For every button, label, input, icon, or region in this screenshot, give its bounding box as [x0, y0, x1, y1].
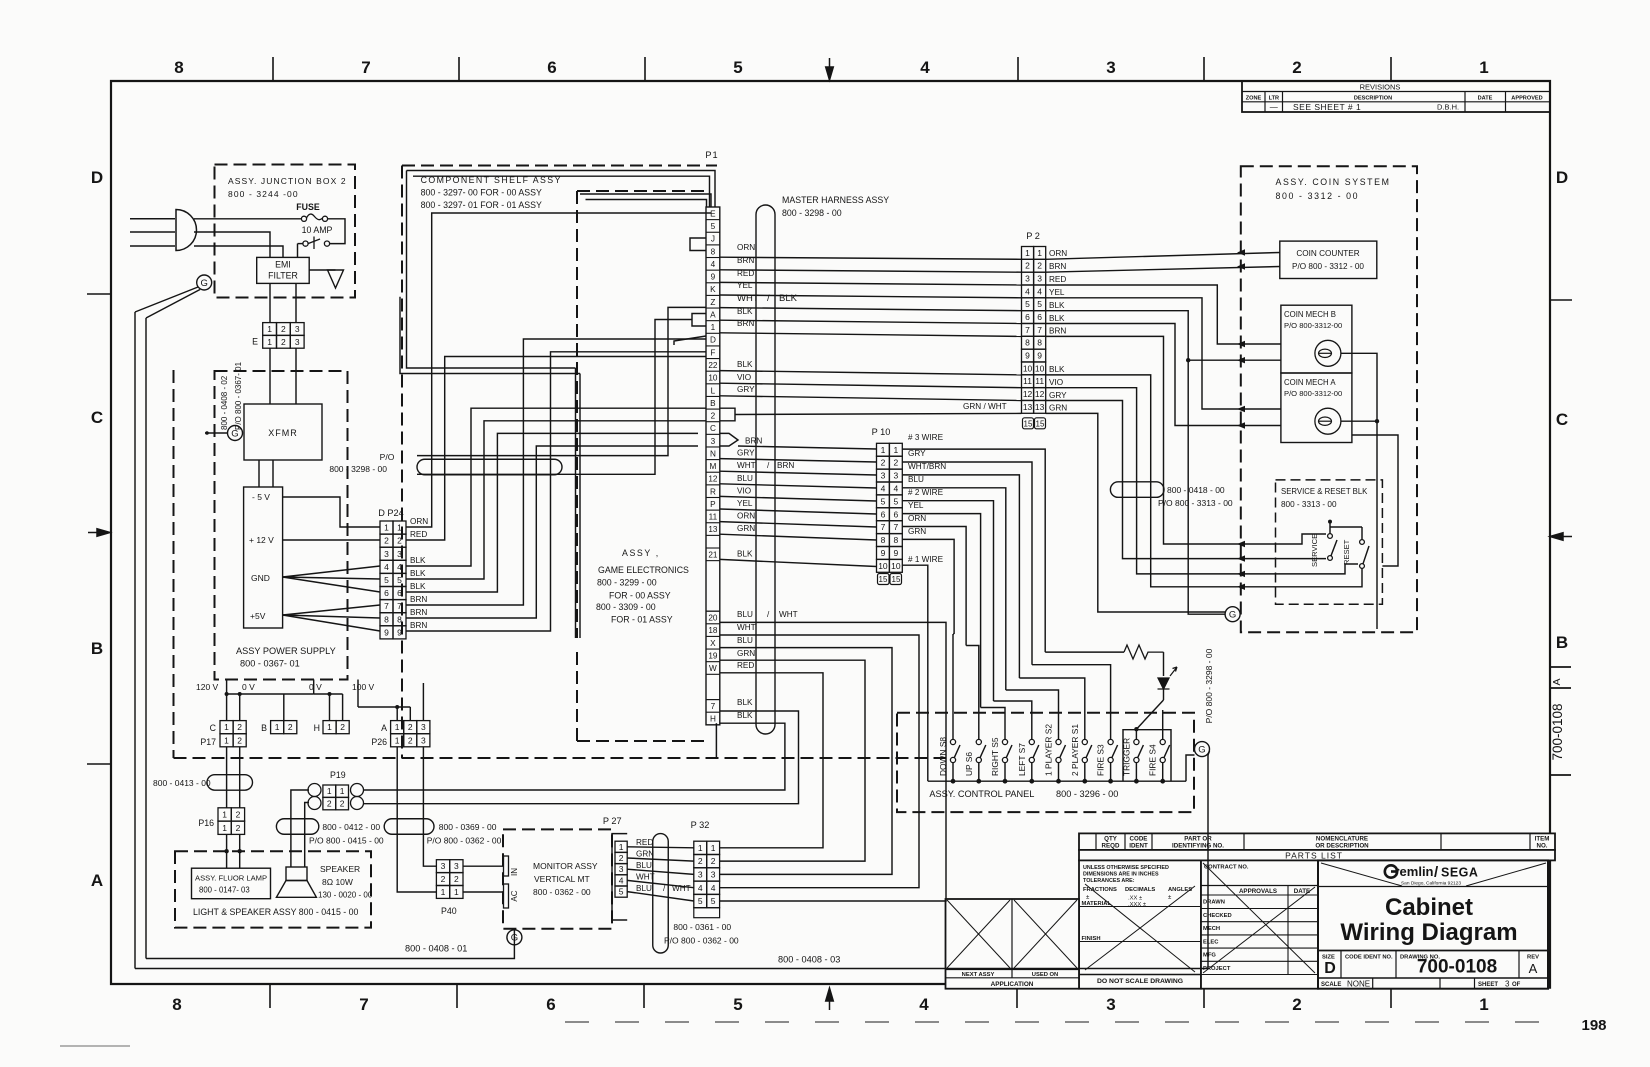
- svg-text:3: 3: [421, 735, 426, 745]
- svg-text:WHT: WHT: [779, 610, 798, 619]
- svg-text:DECIMALS: DECIMALS: [1125, 887, 1155, 893]
- svg-text:C: C: [710, 424, 716, 433]
- service reset label: [1281, 487, 1368, 509]
- svg-text:3: 3: [1025, 274, 1030, 284]
- svg-text:2: 2: [281, 337, 286, 347]
- svg-text:1: 1: [222, 823, 227, 833]
- top zone tick marks: [273, 57, 1391, 81]
- svg-text:4: 4: [711, 883, 716, 893]
- svg-text:YEL: YEL: [1049, 288, 1065, 297]
- wire P2-1 to coin counter ORN: [1046, 253, 1280, 260]
- svg-text:800 - 0361 - 00: 800 - 0361 - 00: [673, 922, 731, 932]
- svg-text:1: 1: [395, 722, 400, 732]
- svg-text:SHEET: SHEET: [1478, 982, 1498, 988]
- svg-text:P/O: P/O: [380, 452, 395, 462]
- svg-text:COIN MECH A: COIN MECH A: [1284, 378, 1336, 387]
- svg-text:BLK: BLK: [737, 711, 753, 720]
- svg-text:VIO: VIO: [737, 373, 751, 382]
- svg-text:YEL: YEL: [737, 499, 753, 508]
- svg-text:PARTS LIST: PARTS LIST: [1285, 850, 1343, 860]
- svg-text:4: 4: [893, 483, 898, 493]
- wire P2-11 VIO to service block: [1046, 388, 1358, 574]
- svg-text:NONE: NONE: [1347, 980, 1370, 989]
- svg-text:A: A: [381, 723, 387, 733]
- svg-text:BRN: BRN: [777, 461, 794, 470]
- svg-text:remlin: remlin: [1394, 864, 1433, 879]
- svg-text:5: 5: [698, 896, 703, 906]
- svg-text:GRN: GRN: [908, 527, 926, 536]
- svg-text:BLK: BLK: [737, 698, 753, 707]
- svg-text:8: 8: [174, 58, 183, 77]
- wire P1-9 to P2-3 RED: [720, 269, 1022, 285]
- svg-text:GRN: GRN: [737, 649, 755, 658]
- svg-text:UP S6: UP S6: [964, 752, 974, 776]
- assy game electronics dashed enclosure: [577, 191, 716, 758]
- bottom zone tick marks: [270, 984, 1391, 1008]
- harness wrap 800-0418-00: [1110, 482, 1233, 508]
- svg-text:22: 22: [708, 361, 718, 370]
- coin mech B box: [1281, 305, 1352, 373]
- svg-text:5: 5: [893, 496, 898, 506]
- svg-text:6: 6: [1025, 312, 1030, 322]
- assy power supply outer dashed box: [174, 370, 947, 758]
- ground connector G junction box: [197, 275, 212, 290]
- svg-text:3: 3: [711, 869, 716, 879]
- parts list label band: [1079, 850, 1555, 861]
- wire P2-2 to coin counter BRN: [1046, 267, 1280, 273]
- +5V fan-out wires to P24 pins 7-9: [283, 605, 380, 631]
- title block logo and title section: [1318, 860, 1548, 988]
- svg-text:3: 3: [421, 722, 426, 732]
- svg-text:BLU: BLU: [737, 474, 753, 483]
- svg-text:1: 1: [711, 843, 716, 853]
- svg-text:DESCRIPTION: DESCRIPTION: [1354, 96, 1392, 102]
- svg-text:1: 1: [222, 809, 227, 819]
- svg-text:LTR: LTR: [1269, 96, 1279, 102]
- svg-text:COMPONENT SHELF ASSY: COMPONENT SHELF ASSY: [421, 175, 562, 185]
- wire P2-5 BLK to coin mechs and ground G: [1046, 311, 1281, 615]
- svg-text:800 - 0413 - 00: 800 - 0413 - 00: [153, 778, 211, 788]
- svg-text:2: 2: [281, 324, 286, 334]
- svg-text:ASSY ,: ASSY ,: [622, 548, 660, 558]
- svg-text:2: 2: [1292, 995, 1301, 1014]
- svg-text:5: 5: [881, 496, 886, 506]
- svg-text:ASSY. JUNCTION BOX 2: ASSY. JUNCTION BOX 2: [228, 176, 347, 186]
- svg-text:4: 4: [1037, 286, 1042, 296]
- svg-text:7: 7: [1037, 325, 1042, 335]
- svg-text:10: 10: [891, 561, 901, 571]
- svg-text:3: 3: [893, 471, 898, 481]
- wire P24-8 BRN to P1 pin 3: [406, 446, 698, 618]
- svg-text:0 V: 0 V: [309, 682, 322, 692]
- left ground verticals from junction box G: [135, 312, 146, 969]
- svg-text:4: 4: [711, 260, 716, 269]
- svg-text:B: B: [261, 723, 267, 733]
- svg-text:A: A: [91, 871, 103, 890]
- wire P1-Z to P2-5 WHT/BLK: [720, 293, 1022, 311]
- svg-text:9: 9: [893, 548, 898, 558]
- svg-text:ITEM: ITEM: [1535, 836, 1550, 843]
- svg-text:REVISIONS: REVISIONS: [1360, 83, 1401, 92]
- svg-text:Cabinet: Cabinet: [1385, 894, 1473, 921]
- wire plug line2 to EMI filter: [194, 232, 270, 257]
- wire P24-4 BLK to P1 pin B: [406, 408, 706, 566]
- AC line plug: [130, 210, 196, 251]
- monitor assy dashed enclosure: [503, 829, 612, 928]
- wires P16 down to fluorescent lamp: [224, 834, 241, 868]
- svg-text:800 - 0362 - 00: 800 - 0362 - 00: [533, 887, 591, 897]
- svg-text:800 - 0408 - 03: 800 - 0408 - 03: [778, 955, 840, 965]
- svg-text:ORN: ORN: [1049, 249, 1067, 258]
- svg-text:BRN: BRN: [1049, 327, 1066, 336]
- wires P1 to P10 group: [720, 446, 877, 567]
- title block scale / sheet row: [1318, 978, 1548, 989]
- svg-text:X: X: [710, 639, 716, 648]
- svg-text:RED: RED: [410, 530, 427, 539]
- svg-text:GRY: GRY: [737, 449, 755, 458]
- svg-text:3: 3: [711, 437, 716, 446]
- svg-text:ASSY. COIN SYSTEM: ASSY. COIN SYSTEM: [1276, 177, 1391, 187]
- svg-text:XFMR: XFMR: [268, 428, 298, 438]
- svg-text:# 3 WIRE: # 3 WIRE: [908, 433, 944, 442]
- connector H: [314, 721, 350, 734]
- P2 right wire labels: [1049, 249, 1067, 413]
- LED photo sensor: [1158, 667, 1178, 700]
- svg-text:DOWN S8: DOWN S8: [938, 737, 948, 776]
- svg-text:1: 1: [327, 722, 332, 732]
- svg-text:NEXT ASSY: NEXT ASSY: [962, 972, 995, 978]
- svg-text:BLK: BLK: [1049, 301, 1065, 310]
- wire P1 pin Z return loop: [417, 307, 706, 455]
- svg-text:N: N: [710, 449, 716, 458]
- svg-text:USED ON: USED ON: [1032, 972, 1058, 978]
- svg-text:MONITOR ASSY: MONITOR ASSY: [533, 861, 598, 871]
- connector P16: [198, 808, 244, 835]
- svg-text:4: 4: [919, 995, 929, 1014]
- svg-text:- 5 V: - 5 V: [252, 492, 270, 502]
- fluorescent lamp assy box: [192, 868, 271, 899]
- svg-text:800 - 3297- 00 FOR - 00 A: 800 - 3297- 00 FOR - 00 ASSY: [421, 188, 542, 198]
- svg-text:ELEC: ELEC: [1203, 939, 1219, 945]
- svg-text:1: 1: [395, 735, 400, 745]
- svg-text:2: 2: [340, 799, 345, 809]
- svg-text:4: 4: [384, 562, 389, 572]
- svg-text:7: 7: [384, 601, 389, 611]
- svg-text:1: 1: [1479, 58, 1488, 77]
- svg-text:P26: P26: [371, 737, 387, 747]
- connector A / P26: [371, 721, 430, 747]
- top center alignment arrow: [826, 58, 834, 80]
- svg-text:800 - 0418 - 00: 800 - 0418 - 00: [1167, 485, 1225, 495]
- svg-text:5: 5: [733, 995, 742, 1014]
- svg-text:C: C: [210, 723, 217, 733]
- svg-text:Wiring Diagram: Wiring Diagram: [1340, 919, 1517, 946]
- ground connector G monitor: [507, 930, 522, 945]
- light and speaker assy dashed enclosure: [175, 851, 371, 927]
- svg-text:NOMENCLATURE: NOMENCLATURE: [1316, 836, 1368, 843]
- svg-text:2: 2: [881, 458, 886, 468]
- svg-text:15: 15: [1024, 419, 1033, 428]
- wire +12V to P24 pin 2: [283, 539, 380, 541]
- svg-text:1: 1: [224, 735, 229, 745]
- wire P24-6 BLK to P1 pin C: [406, 433, 698, 592]
- svg-text:CODE IDENT NO.: CODE IDENT NO.: [1345, 955, 1393, 961]
- wire P24-1 ORN to P1 pin E: [406, 213, 711, 527]
- svg-text:DATE: DATE: [1294, 888, 1310, 895]
- P1 pin A-1 jumper bracket: [692, 314, 706, 327]
- connector B: [261, 721, 297, 734]
- svg-text:MECH: MECH: [1203, 926, 1220, 932]
- svg-text:5: 5: [1025, 299, 1030, 309]
- harness wrap at P27: [653, 834, 669, 953]
- svg-text:# 1 WIRE: # 1 WIRE: [908, 555, 944, 564]
- svg-text:2: 2: [711, 856, 716, 866]
- connector P27: [603, 816, 627, 920]
- svg-text:2: 2: [698, 856, 703, 866]
- component shelf label: [421, 175, 562, 210]
- svg-text:198: 198: [1581, 1017, 1606, 1034]
- svg-text:QTY: QTY: [1104, 836, 1118, 843]
- svg-text:P16: P16: [198, 818, 214, 828]
- bottom scan noise line and page number 198: [60, 1017, 1607, 1046]
- svg-text:2: 2: [711, 412, 716, 421]
- svg-text:5: 5: [619, 887, 624, 897]
- svg-text:P40: P40: [441, 906, 457, 916]
- tap bus wires: [225, 680, 424, 721]
- svg-text:5: 5: [711, 896, 716, 906]
- svg-text:15: 15: [879, 575, 888, 584]
- junction box label: [228, 176, 347, 199]
- AC bus wire 2 to P1 top: [580, 194, 711, 207]
- svg-text:4: 4: [881, 483, 886, 493]
- bottom center alignment arrow: [826, 988, 834, 1010]
- svg-text:11: 11: [709, 513, 718, 522]
- svg-text:P 2: P 2: [1026, 231, 1040, 241]
- svg-text:8: 8: [384, 614, 389, 624]
- svg-text:7: 7: [881, 522, 886, 532]
- voltage tap labels 120V 0V 0V 100V: [196, 682, 375, 692]
- wire P1-1 to P2-7 BRN: [720, 319, 1022, 336]
- left zone letters D C B A: [91, 168, 103, 890]
- svg-text:2: 2: [1037, 261, 1042, 271]
- svg-text:7: 7: [711, 702, 716, 711]
- svg-text:BLK: BLK: [737, 307, 753, 316]
- wires P1 20 18 X 19 W to P32: [720, 610, 946, 901]
- svg-text:P19: P19: [330, 770, 346, 780]
- interlock switch: [303, 237, 330, 250]
- AC pair junction box to component shelf upper bus: [400, 171, 580, 639]
- svg-text:1: 1: [711, 323, 716, 332]
- coin mech A box: [1281, 373, 1352, 443]
- svg-text:—: —: [1270, 103, 1278, 112]
- wires P26 to monitor P40: [397, 747, 436, 892]
- svg-text:800 - 0408 - 01: 800 - 0408 - 01: [405, 944, 467, 954]
- svg-text:DO NOT SCALE DRAWING: DO NOT SCALE DRAWING: [1097, 978, 1183, 985]
- wires EMI filter to E connector: [270, 283, 296, 322]
- svg-text:G: G: [231, 428, 238, 439]
- connector P10: [872, 427, 903, 572]
- svg-text:6: 6: [893, 509, 898, 519]
- svg-text:800 - 0412 - 00: 800 - 0412 - 00: [322, 822, 380, 832]
- monitor assy label: [533, 861, 598, 897]
- wires P17 down to P16: [227, 747, 240, 808]
- svg-text:GND: GND: [251, 573, 270, 583]
- svg-text:1: 1: [881, 445, 886, 455]
- svg-text:6: 6: [384, 588, 389, 598]
- svg-text:WHT: WHT: [737, 461, 756, 470]
- svg-text:B: B: [91, 639, 103, 658]
- svg-text:1 PLAYER S2: 1 PLAYER S2: [1044, 724, 1054, 776]
- coin mech right side wires: [1341, 353, 1398, 629]
- svg-text:2: 2: [1292, 58, 1301, 77]
- svg-text:MFG: MFG: [1203, 953, 1216, 959]
- svg-text:COIN COUNTER: COIN COUNTER: [1296, 249, 1359, 258]
- svg-text:VIO: VIO: [737, 486, 751, 495]
- wire P1-22 to P2-10 BLK: [720, 360, 1022, 375]
- svg-text:20: 20: [708, 614, 718, 623]
- svg-text:BLK: BLK: [737, 360, 753, 369]
- service and reset block dashed enclosure: [1276, 480, 1383, 604]
- svg-text:MASTER HARNESS ASSY: MASTER HARNESS ASSY: [782, 195, 889, 205]
- svg-text:P/O 800 - 0362 - 00: P/O 800 - 0362 - 00: [664, 936, 739, 946]
- power supply label: [236, 646, 336, 669]
- svg-text:2: 2: [408, 722, 413, 732]
- wire P1-A to P2-6 BLK: [720, 307, 1022, 324]
- svg-text:2: 2: [236, 823, 241, 833]
- svg-text:FRACTIONS: FRACTIONS: [1083, 887, 1117, 893]
- svg-text:13: 13: [708, 525, 718, 534]
- svg-text:3: 3: [384, 549, 389, 559]
- svg-text:2 PLAYER S1: 2 PLAYER S1: [1070, 724, 1080, 776]
- svg-text:FOR - 00 ASSY: FOR - 00 ASSY: [609, 591, 671, 601]
- svg-text:A: A: [1551, 678, 1563, 685]
- revisions table: [1242, 81, 1550, 112]
- svg-text:1: 1: [384, 523, 389, 533]
- svg-text:ORN: ORN: [737, 512, 755, 521]
- svg-text:SERVICE & RESET BLK: SERVICE & RESET BLK: [1281, 487, 1368, 496]
- svg-text:2: 2: [1025, 261, 1030, 271]
- svg-text:YEL: YEL: [737, 281, 753, 290]
- svg-text:WHT: WHT: [636, 873, 655, 882]
- title block size / drawing number row: [1318, 951, 1548, 979]
- svg-text:P/O 800 - 0415 - 00: P/O 800 - 0415 - 00: [309, 836, 384, 846]
- fuse F1 10 AMP: [296, 202, 332, 235]
- wire P1-10 to P2-11 VIO: [720, 373, 1022, 388]
- svg-text:GRN: GRN: [636, 850, 654, 859]
- svg-text:P/O 800 - 3312 - 00: P/O 800 - 3312 - 00: [1292, 262, 1364, 271]
- svg-text:6: 6: [881, 509, 886, 519]
- svg-text:WHT: WHT: [737, 623, 756, 632]
- svg-text:B: B: [710, 399, 716, 408]
- connector P19 with strain loops: [308, 770, 364, 810]
- svg-text:RED: RED: [737, 269, 754, 278]
- svg-text:3: 3: [1505, 980, 1510, 989]
- svg-text:5: 5: [711, 222, 716, 231]
- svg-text:10: 10: [1023, 363, 1033, 373]
- svg-text:800 - 0408 - 02: 800 - 0408 - 02: [220, 375, 229, 430]
- svg-text:WHT/BRN: WHT/BRN: [908, 462, 946, 471]
- svg-text:3: 3: [1106, 995, 1115, 1014]
- wire P24-2 RED to P1: [406, 357, 706, 541]
- svg-text:YEL: YEL: [908, 501, 924, 510]
- svg-text:.XX ±: .XX ±: [1128, 896, 1142, 902]
- master harness assy label: [782, 195, 889, 218]
- svg-text:11: 11: [1035, 376, 1044, 386]
- harness wrap 800-0369-00: [384, 819, 501, 846]
- svg-text:1: 1: [698, 843, 703, 853]
- svg-text:ORN: ORN: [410, 517, 428, 526]
- svg-text:RED: RED: [636, 838, 653, 847]
- connector C / P17: [200, 721, 246, 747]
- svg-text:BRN: BRN: [410, 621, 427, 630]
- svg-text:9: 9: [711, 273, 716, 282]
- svg-text:L: L: [711, 386, 716, 395]
- svg-text:APPROVED: APPROVED: [1511, 96, 1542, 102]
- svg-text:2: 2: [236, 809, 241, 819]
- svg-text:4: 4: [698, 883, 703, 893]
- svg-text:2: 2: [237, 735, 242, 745]
- coin counter box: [1280, 241, 1377, 278]
- svg-text:REQD: REQD: [1102, 843, 1120, 850]
- svg-text:P 27: P 27: [603, 816, 622, 826]
- wire P1 pin A return loop: [417, 320, 692, 475]
- svg-text:3: 3: [881, 471, 886, 481]
- svg-text:10: 10: [708, 374, 718, 383]
- harness wrap P/O 800-3298-00 at P24: [329, 452, 562, 475]
- svg-text:2: 2: [288, 722, 293, 732]
- control panel switches: [938, 724, 1170, 784]
- svg-text:4: 4: [1025, 286, 1030, 296]
- svg-text:BRN: BRN: [410, 595, 427, 604]
- wires E connector to XFMR: [270, 348, 296, 404]
- svg-text:P/O 800-3312-00: P/O 800-3312-00: [1284, 321, 1342, 330]
- wire switch to EMI filter: [297, 244, 299, 258]
- svg-text:800 - 3297- 01 FOR - 01 AS: 800 - 3297- 01 FOR - 01 ASSY: [421, 200, 542, 210]
- power supply dashed enclosure: [215, 371, 348, 680]
- control panel ground bus: [928, 755, 1195, 781]
- svg-text:2: 2: [384, 536, 389, 546]
- svg-text:1: 1: [619, 842, 624, 852]
- svg-text:DRAWN: DRAWN: [1203, 900, 1225, 906]
- svg-text:13: 13: [1023, 402, 1033, 412]
- connector P1: [705, 150, 719, 725]
- svg-text:2: 2: [619, 853, 624, 863]
- svg-text:R: R: [710, 487, 716, 496]
- svg-text:1: 1: [224, 722, 229, 732]
- resistor on trigger LED feed: [1045, 645, 1163, 676]
- svg-text:13: 13: [1035, 402, 1045, 412]
- game electronics label: [596, 548, 689, 625]
- svg-text:P/O 800 - 0362 - 00: P/O 800 - 0362 - 00: [427, 836, 502, 846]
- svg-text:+5V: +5V: [250, 611, 266, 621]
- assy coin system dashed enclosure: [1241, 166, 1417, 632]
- title block tolerance section: [1079, 860, 1201, 988]
- svg-text:7: 7: [359, 995, 368, 1014]
- svg-text:800 - 3244 -00: 800 - 3244 -00: [228, 189, 299, 199]
- svg-text:SERVICE: SERVICE: [1310, 534, 1319, 567]
- svg-text:800 - 3299 - 00: 800 - 3299 - 00: [597, 578, 657, 588]
- svg-text:EMI: EMI: [275, 260, 291, 270]
- svg-text:800 - 3298 - 00: 800 - 3298 - 00: [329, 464, 387, 474]
- svg-text:10: 10: [878, 561, 888, 571]
- svg-text:1: 1: [454, 887, 459, 897]
- wire LED to trigger switch: [1134, 700, 1163, 740]
- svg-text:12: 12: [1023, 389, 1033, 399]
- svg-text:GRY: GRY: [1049, 391, 1067, 400]
- svg-text:H: H: [710, 715, 716, 724]
- svg-text:C: C: [91, 408, 103, 427]
- switch feed corners: [953, 634, 1111, 740]
